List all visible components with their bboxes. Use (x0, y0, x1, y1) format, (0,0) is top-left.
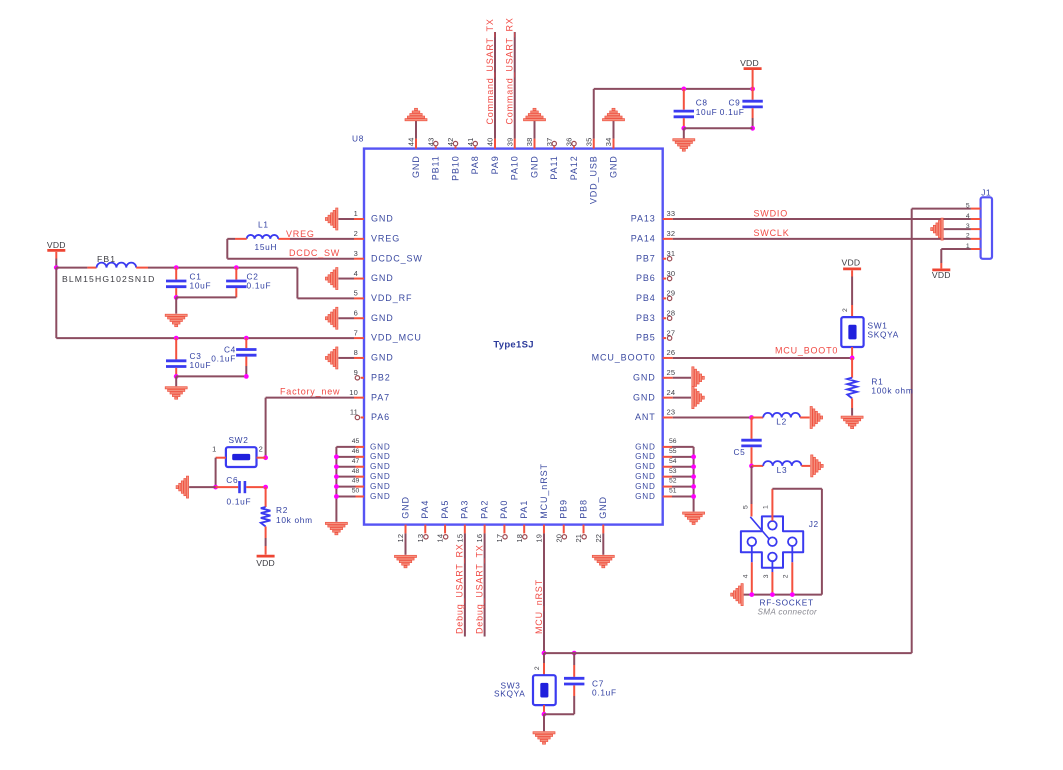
svg-text:49: 49 (352, 478, 360, 485)
svg-text:Command_USART_RX: Command_USART_RX (505, 17, 515, 124)
svg-text:5: 5 (743, 505, 750, 509)
svg-text:0.1uF: 0.1uF (247, 281, 272, 291)
svg-text:MCU_BOOT0: MCU_BOOT0 (592, 353, 656, 363)
svg-text:10uF: 10uF (190, 281, 212, 291)
svg-text:MCU_BOOT0: MCU_BOOT0 (775, 346, 838, 356)
svg-text:34: 34 (604, 138, 613, 147)
svg-text:PB6: PB6 (636, 273, 656, 283)
svg-text:100k ohm: 100k ohm (871, 385, 913, 395)
svg-text:GND: GND (371, 214, 394, 224)
svg-text:GND: GND (608, 155, 618, 178)
svg-text:40: 40 (486, 138, 495, 147)
svg-text:Debug_USART_TX: Debug_USART_TX (474, 544, 484, 634)
svg-text:0.1uF: 0.1uF (592, 687, 617, 697)
svg-text:6: 6 (354, 308, 358, 317)
svg-text:PA5: PA5 (440, 500, 450, 519)
svg-text:GND: GND (633, 392, 656, 402)
svg-text:54: 54 (669, 458, 677, 465)
svg-text:56: 56 (669, 438, 677, 445)
svg-text:51: 51 (669, 488, 677, 495)
svg-text:PA2: PA2 (479, 500, 489, 519)
svg-text:5: 5 (354, 289, 358, 298)
svg-text:PB8: PB8 (578, 499, 588, 519)
svg-text:RF-SOCKET: RF-SOCKET (760, 597, 814, 607)
svg-text:VDD: VDD (842, 257, 861, 267)
svg-text:GND: GND (411, 155, 421, 178)
svg-text:VDD: VDD (932, 270, 951, 280)
svg-text:19: 19 (535, 534, 544, 543)
svg-text:PB3: PB3 (636, 313, 656, 323)
svg-text:PB2: PB2 (371, 372, 391, 382)
svg-text:PB11: PB11 (431, 155, 441, 180)
svg-text:0.1uF: 0.1uF (211, 354, 236, 364)
svg-text:47: 47 (352, 458, 360, 465)
svg-text:PA7: PA7 (371, 392, 390, 402)
svg-text:PA10: PA10 (510, 155, 520, 180)
svg-text:L3: L3 (777, 465, 788, 475)
svg-text:PA6: PA6 (371, 412, 390, 422)
svg-text:GND: GND (633, 372, 656, 382)
svg-text:GND: GND (370, 452, 391, 461)
svg-text:45: 45 (352, 438, 360, 445)
svg-text:VREG: VREG (371, 233, 400, 243)
svg-text:SKQYA: SKQYA (494, 689, 525, 699)
svg-text:SW2: SW2 (228, 435, 248, 445)
svg-text:GND: GND (529, 155, 539, 178)
svg-text:22: 22 (594, 534, 603, 543)
svg-text:PA3: PA3 (460, 500, 470, 519)
svg-text:GND: GND (598, 496, 608, 519)
svg-text:50: 50 (352, 488, 360, 495)
svg-text:2: 2 (259, 445, 263, 454)
svg-text:33: 33 (667, 209, 676, 218)
svg-text:ANT: ANT (635, 412, 656, 422)
svg-text:PB10: PB10 (450, 155, 460, 181)
svg-text:Factory_new: Factory_new (280, 386, 340, 396)
svg-text:DCDC_SW: DCDC_SW (371, 253, 423, 263)
svg-text:2: 2 (966, 233, 970, 240)
svg-text:2: 2 (842, 308, 849, 312)
svg-text:46: 46 (352, 448, 360, 455)
svg-text:53: 53 (669, 468, 677, 475)
svg-text:SKQYA: SKQYA (868, 329, 899, 339)
svg-text:SWCLK: SWCLK (754, 228, 790, 238)
svg-text:0.1uF: 0.1uF (227, 497, 252, 507)
svg-text:10: 10 (349, 388, 358, 397)
svg-text:SWDIO: SWDIO (754, 208, 789, 218)
svg-text:12: 12 (396, 534, 405, 543)
svg-text:SMA connector: SMA connector (758, 608, 818, 617)
svg-text:2: 2 (534, 666, 541, 670)
svg-text:PB5: PB5 (636, 333, 656, 343)
svg-text:38: 38 (525, 138, 534, 147)
svg-text:Debug_USART_RX: Debug_USART_RX (455, 543, 465, 634)
svg-text:4: 4 (966, 213, 970, 220)
svg-text:GND: GND (370, 462, 391, 471)
svg-text:1: 1 (354, 209, 358, 218)
svg-text:PA4: PA4 (420, 500, 430, 519)
svg-text:2: 2 (783, 574, 790, 578)
svg-text:44: 44 (407, 138, 416, 147)
svg-text:GND: GND (400, 496, 410, 519)
svg-text:PB9: PB9 (559, 499, 569, 519)
svg-text:Type1SJ: Type1SJ (493, 340, 533, 351)
svg-text:GND: GND (370, 492, 391, 501)
svg-text:PA13: PA13 (631, 214, 656, 224)
svg-text:J1: J1 (981, 188, 991, 198)
svg-text:55: 55 (669, 448, 677, 455)
svg-text:4: 4 (743, 574, 750, 578)
svg-text:7: 7 (354, 328, 358, 337)
svg-text:35: 35 (584, 138, 593, 147)
svg-text:39: 39 (505, 138, 514, 147)
svg-text:BLM15HG102SN1D: BLM15HG102SN1D (62, 274, 155, 284)
svg-text:GND: GND (635, 492, 656, 501)
svg-text:C6: C6 (226, 475, 238, 485)
svg-text:Command_USART_TX: Command_USART_TX (485, 18, 495, 124)
svg-text:1: 1 (763, 505, 770, 509)
svg-text:26: 26 (667, 348, 676, 357)
svg-text:8: 8 (354, 348, 358, 357)
svg-text:VDD: VDD (256, 558, 275, 568)
svg-text:GND: GND (370, 442, 391, 451)
svg-text:GND: GND (371, 313, 394, 323)
svg-text:GND: GND (635, 442, 656, 451)
svg-text:PB7: PB7 (636, 253, 656, 263)
svg-text:C8: C8 (696, 98, 708, 108)
svg-text:FB1: FB1 (97, 254, 116, 264)
svg-text:16: 16 (475, 534, 484, 543)
svg-text:23: 23 (667, 408, 676, 417)
svg-text:PA11: PA11 (549, 155, 559, 179)
svg-text:VDD_MCU: VDD_MCU (371, 333, 422, 343)
svg-text:0.1uF: 0.1uF (720, 107, 745, 117)
svg-text:3: 3 (763, 574, 770, 578)
svg-text:PA14: PA14 (631, 233, 656, 243)
svg-text:PB4: PB4 (636, 293, 656, 303)
svg-text:L1: L1 (258, 220, 269, 230)
svg-text:R2: R2 (276, 505, 288, 515)
svg-text:GND: GND (370, 472, 391, 481)
svg-text:GND: GND (635, 472, 656, 481)
svg-text:52: 52 (669, 478, 677, 485)
svg-text:48: 48 (352, 468, 360, 475)
svg-text:15uH: 15uH (255, 242, 278, 252)
svg-text:4: 4 (354, 269, 358, 278)
svg-text:VDD_RF: VDD_RF (371, 293, 412, 303)
svg-text:1: 1 (212, 445, 216, 454)
svg-text:C9: C9 (728, 98, 740, 108)
svg-text:GND: GND (635, 482, 656, 491)
svg-text:10k ohm: 10k ohm (276, 515, 313, 525)
svg-text:J2: J2 (809, 519, 819, 529)
svg-text:PA9: PA9 (490, 155, 500, 174)
svg-text:PA12: PA12 (569, 155, 579, 180)
svg-text:PA8: PA8 (470, 155, 480, 174)
svg-text:24: 24 (667, 388, 676, 397)
svg-text:MCU_nRST: MCU_nRST (534, 579, 544, 634)
svg-text:25: 25 (667, 368, 676, 377)
svg-text:GND: GND (635, 462, 656, 471)
svg-text:10uF: 10uF (190, 360, 212, 370)
svg-text:GND: GND (371, 273, 394, 283)
svg-text:C5: C5 (733, 447, 745, 457)
svg-text:L2: L2 (776, 416, 787, 426)
svg-text:2: 2 (354, 229, 358, 238)
svg-text:10uF: 10uF (696, 107, 718, 117)
svg-text:VDD_USB: VDD_USB (589, 155, 599, 204)
svg-text:MCU_nRST: MCU_nRST (539, 463, 549, 519)
svg-text:VDD: VDD (740, 58, 759, 68)
svg-text:GND: GND (635, 452, 656, 461)
svg-text:VREG: VREG (286, 229, 315, 239)
svg-text:PA1: PA1 (519, 500, 529, 519)
svg-text:15: 15 (455, 534, 464, 543)
svg-text:32: 32 (667, 229, 676, 238)
svg-text:GND: GND (370, 482, 391, 491)
svg-text:DCDC_SW: DCDC_SW (289, 248, 340, 258)
svg-text:3: 3 (354, 249, 358, 258)
svg-text:U8: U8 (352, 134, 364, 144)
svg-text:PA0: PA0 (499, 500, 509, 519)
svg-text:GND: GND (371, 353, 394, 363)
svg-text:VDD: VDD (47, 240, 66, 250)
